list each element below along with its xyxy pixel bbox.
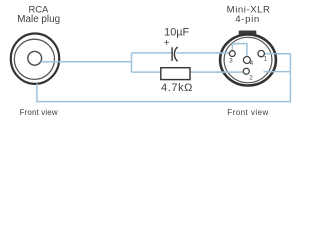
- svg-text:4-pin: 4-pin: [235, 14, 260, 25]
- wire: ground to XLR shell (over rings): [264, 71, 291, 73]
- RCA center pin circle: [28, 51, 42, 65]
- wire: top branch to capacitor: [132, 52, 172, 54]
- wire: cap branch over shell to pin 3: [215, 52, 232, 54]
- wire: RCA tip to junction node: [41, 61, 132, 63]
- svg-text:1: 1: [264, 56, 268, 63]
- svg-text:10µF: 10µF: [164, 27, 189, 39]
- XLR outer shell circle: [220, 35, 276, 86]
- svg-text:4: 4: [250, 60, 254, 67]
- XLR pin 1: [258, 50, 264, 56]
- svg-text:+: +: [164, 38, 170, 49]
- C1 curved plate: [174, 47, 177, 61]
- XLR inner ring: [224, 37, 272, 82]
- svg-text:Front view: Front view: [20, 108, 58, 117]
- wire: ground to XLR pin 1: [261, 53, 290, 55]
- wire: capacitor to XLR pin 3: [176, 52, 232, 54]
- wire: ground over shell to pin 1: [261, 53, 276, 55]
- XLR keyway notch: [239, 31, 257, 40]
- svg-text:3: 3: [229, 57, 233, 64]
- RCA outer shell circle: [11, 34, 59, 84]
- resistor R1 4.7k: [161, 68, 190, 80]
- wire: junction vertical (node A): [131, 53, 133, 72]
- svg-text:Male plug: Male plug: [17, 14, 60, 25]
- RCA inner ring: [14, 39, 54, 79]
- wire: ground bottom run: [36, 101, 291, 103]
- C1 straight plate: [171, 47, 173, 61]
- wire: bottom branch through resistor to XLR pin 2: [132, 71, 247, 73]
- wire: ground from RCA shell down: [36, 84, 38, 102]
- svg-text:4.7kΩ: 4.7kΩ: [161, 82, 193, 94]
- wire: jumper pin 3 to pin 4: [232, 44, 247, 60]
- svg-text:2: 2: [249, 74, 253, 81]
- wire: ground right riser: [289, 54, 291, 102]
- wire: resistor branch over shell to pin 2: [215, 71, 246, 73]
- XLR pin 2: [243, 68, 249, 74]
- XLR pin 4: [243, 57, 250, 64]
- XLR pin 3: [229, 51, 235, 57]
- svg-text:Front view: Front view: [227, 108, 268, 117]
